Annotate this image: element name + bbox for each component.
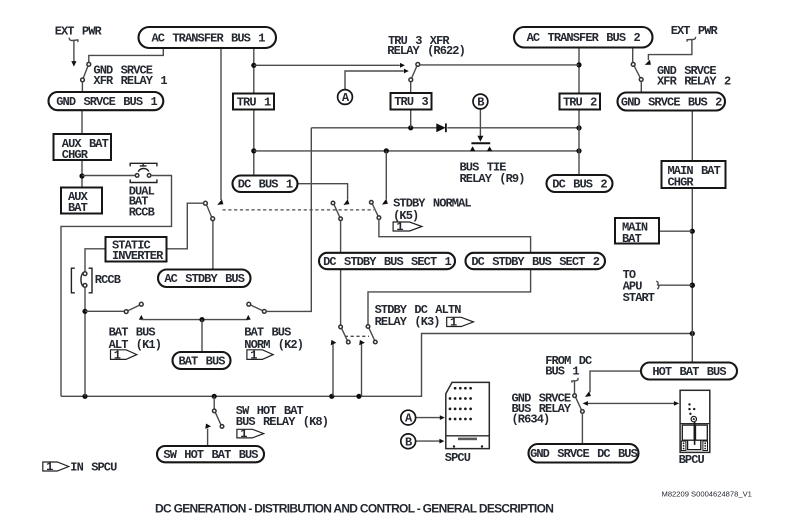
svg-text:RCCB: RCCB: [95, 273, 121, 287]
circuit breaker B1 stem: [477, 109, 483, 142]
box AUX BAT: [61, 188, 102, 214]
svg-text:HOT BAT BUS: HOT BAT BUS: [652, 365, 726, 379]
wire relay to GND SRVCE BUS 2: [640, 81, 642, 92]
node diode line tru2: [576, 125, 581, 130]
node ac xfr 2 tap: [576, 62, 581, 67]
arrow a2 spcu: [440, 415, 445, 420]
arrow ac stdby relay contact: [217, 199, 223, 205]
bus pill DC BUS 2: [547, 175, 613, 192]
node rccb k1 tap: [82, 309, 87, 314]
unit SPCU dots: [449, 387, 472, 421]
node tru3 diode: [408, 125, 413, 130]
relay GND SRVCE BUS RELAY R634: [573, 394, 584, 413]
bus pill DC STDBY BUS SECT 2: [466, 253, 606, 269]
svg-text:GND SRVCE BUS 1: GND SRVCE BUS 1: [56, 95, 157, 109]
node rail rccb: [82, 394, 87, 399]
wire DC BUS 1 to K5A: [298, 184, 348, 200]
unit BPCU stem: [694, 422, 696, 445]
wire AUX BAT CHGR to AUX BAT: [81, 160, 83, 188]
wire from dc bus 1 to R634: [574, 381, 576, 394]
wire aux bat tap to dual bat rccb: [82, 175, 135, 177]
wire AC TRANSFER BUS 2 to TRU 2: [578, 48, 580, 94]
svg-text:BAT: BAT: [622, 232, 642, 246]
svg-text:1: 1: [240, 427, 247, 441]
node rail hot bat bus: [690, 331, 695, 336]
unit BPCU relay boxes: [682, 425, 707, 440]
svg-text:EXT PWR: EXT PWR: [55, 25, 103, 39]
wire diode line: [311, 127, 579, 129]
wire k8 contact to SW HOT BAT BUS: [207, 429, 209, 447]
to apu start symbol: [656, 281, 659, 289]
node tru1 dc bus tap: [251, 148, 256, 153]
wire r634 to bpcu double arrow: [587, 402, 676, 404]
bus pill DC BUS 1: [233, 176, 298, 193]
wire k1 to k2 bat bus line: [141, 319, 248, 321]
relay STDBY DC ALTN K3 left: [339, 325, 350, 344]
ext pwr feed symbol left: [69, 38, 78, 67]
wire relay to TRU 3: [410, 82, 412, 94]
svg-text:CHGR: CHGR: [62, 148, 89, 162]
svg-text:TRU 2: TRU 2: [563, 95, 597, 109]
svg-text:GND SRVCE BUS 2: GND SRVCE BUS 2: [621, 95, 722, 109]
arrow k3 left contact: [331, 340, 337, 345]
svg-text:SW HOT BAT BUS: SW HOT BAT BUS: [163, 448, 258, 462]
svg-text:DC STDBY BUS SECT 1: DC STDBY BUS SECT 1: [323, 255, 451, 269]
wire relay to GND SRVCE BUS 1: [81, 82, 83, 92]
node main bat: [690, 229, 695, 234]
wire GND SRVCE BUS 1 to AUX BAT CHGR: [81, 110, 83, 134]
contactor BUS TIE RELAY R9: [470, 143, 493, 151]
wire circle A to tru3 xfr contact 2: [345, 71, 404, 89]
svg-text:GND SRVCE DC BUS: GND SRVCE DC BUS: [530, 447, 638, 461]
arrow k2 contact: [246, 315, 251, 320]
wire dashed gang ac stdby k5: [223, 209, 375, 211]
svg-text:AC TRANSFER BUS 2: AC TRANSFER BUS 2: [527, 31, 641, 45]
svg-text:SPCU: SPCU: [445, 451, 471, 465]
svg-text:DC STDBY BUS SECT 2: DC STDBY BUS SECT 2: [471, 255, 599, 269]
box TRU 2: [560, 94, 601, 110]
svg-text:START: START: [623, 291, 655, 305]
bus pill GND SRVCE BUS 2: [618, 93, 726, 111]
svg-text:RELAY (R9): RELAY (R9): [460, 172, 525, 186]
wire k3 right contact to rail: [361, 344, 363, 396]
relay AC STDBY (static inverter transfer): [204, 201, 215, 220]
from dc bus 1 symbol: [572, 378, 578, 383]
wire GND SRVCE BUS 2 to MAIN BAT CHGR: [691, 110, 693, 161]
svg-text:BPCU: BPCU: [679, 453, 705, 467]
svg-text:IN SPCU: IN SPCU: [70, 461, 117, 475]
svg-text:AC TRANSFER BUS 1: AC TRANSFER BUS 1: [151, 32, 265, 46]
box AUX BAT CHGR: [54, 134, 112, 160]
arrow to r634: [583, 401, 588, 406]
node bat bus tap: [199, 317, 204, 322]
svg-text:XFR RELAY 1: XFR RELAY 1: [93, 74, 167, 88]
wire SECT1 to K3 left: [340, 269, 342, 325]
svg-text:AC STDBY BUS: AC STDBY BUS: [164, 272, 244, 286]
wire dashed gang k3: [345, 335, 369, 337]
unit SPCU slot bar: [458, 438, 477, 441]
wire tap to tru3 xfr relay: [254, 64, 400, 66]
arrow k1 contact: [139, 315, 144, 320]
svg-text:NORM (K2): NORM (K2): [244, 338, 303, 352]
wire r634 to GND SRVCE DC BUS: [581, 413, 583, 444]
bus pill GND SRVCE DC BUS: [529, 444, 639, 463]
relay STDBY DC ALTN K3 right: [366, 325, 377, 344]
wire static inverter to rccb: [85, 249, 106, 272]
arrow b2 spcu: [439, 439, 444, 444]
svg-text:CHGR: CHGR: [668, 175, 695, 189]
wire HOT BAT BUS to r634 contact: [590, 371, 641, 392]
wire MAIN BAT CHGR to HOT BAT BUS: [691, 188, 693, 363]
wire AC TRANSFER BUS 2 to GND SRVCE XFR RELAY 2: [632, 48, 634, 63]
svg-text:DC BUS 1: DC BUS 1: [238, 178, 293, 192]
bus pill AC TRANSFER BUS 2: [514, 27, 653, 48]
relay TRU 3 XFR (R622): [409, 63, 420, 82]
wire MAIN BAT to vertical: [659, 230, 692, 232]
wire circle A2 to spcu: [416, 417, 440, 419]
bus pill HOT BAT BUS: [641, 363, 737, 380]
box TRU 3: [391, 93, 432, 110]
wire k5b to DC STDBY BUS SECT 2: [379, 220, 531, 254]
svg-text:EXT PWR: EXT PWR: [671, 24, 719, 38]
wire AC TRANSFER BUS 1 to GND SRVCE XFR RELAY 1: [89, 48, 164, 62]
svg-text:BUS RELAY (K8): BUS RELAY (K8): [236, 415, 328, 429]
svg-text:M82209 S0004624878_V1: M82209 S0004624878_V1: [662, 490, 752, 499]
unit BPCU divider: [680, 423, 710, 425]
flag 1 K1: [111, 348, 137, 362]
wire rccb tap to K1: [85, 310, 124, 312]
svg-text:B: B: [477, 96, 484, 110]
arrow k5a contact: [343, 199, 349, 205]
relay STDBY NORMAL K5A: [331, 201, 342, 220]
svg-text:(K5): (K5): [393, 209, 418, 223]
wire TRU1 drop: [253, 48, 255, 176]
wire k2 up to diode line: [266, 128, 311, 312]
svg-text:ALT (K1): ALT (K1): [109, 338, 161, 352]
bus pill SW HOT BAT BUS: [157, 446, 264, 462]
unit BPCU dots: [688, 403, 695, 415]
box TRU 1: [233, 94, 274, 110]
wire relay to AC STDBY BUS: [212, 221, 214, 270]
node ac xfr 1 tap: [251, 63, 256, 68]
flag 1 K2: [247, 348, 273, 362]
bus pill GND SRVCE BUS 1: [49, 92, 164, 110]
wire rccb to bottom rail: [84, 287, 86, 396]
connector circle A top: [338, 90, 353, 105]
connector circle B bottom: [401, 434, 416, 449]
relay GND SRVCE XFR RELAY 1: [81, 62, 91, 81]
wire rail to K8: [213, 396, 215, 409]
node rail k8: [212, 394, 217, 399]
svg-text:TRU 1: TRU 1: [237, 95, 271, 109]
flag 1 K5: [393, 220, 422, 234]
svg-text:BAT: BAT: [68, 201, 88, 215]
arrow tru3 xfr contact 2: [404, 69, 409, 74]
unit SPCU outline: [446, 382, 490, 448]
svg-text:TRU 3: TRU 3: [394, 95, 428, 109]
unit SPCU divider: [446, 435, 490, 437]
wire circle B2 to spcu: [416, 440, 440, 442]
wire tap to BAT BUS: [201, 320, 203, 353]
svg-text:RELAY (R622): RELAY (R622): [387, 44, 465, 58]
box STATIC INVERTER: [106, 237, 167, 262]
wire bottom rail: [61, 334, 692, 397]
wire tap to tru3 xfr relay pivot: [420, 64, 579, 66]
arrow r634 contact: [585, 391, 591, 397]
wire k5a to DC STDBY BUS SECT 1: [340, 221, 342, 253]
arrow tru3 xfr contact 1: [400, 63, 405, 68]
relay SW HOT BAT BUS K8: [213, 409, 224, 428]
svg-text:B: B: [405, 435, 412, 449]
wire AC TRANSFER BUS 1 to AC STDBY relay: [220, 48, 222, 200]
wire TRU 2 to DC BUS 2: [578, 109, 580, 175]
box MAIN BAT CHGR: [662, 161, 726, 188]
arrow k3 right contact: [359, 340, 365, 345]
relay BAT BUS ALT K1: [124, 302, 143, 313]
wire k5b tap down: [385, 151, 387, 199]
relay GND SRVCE XFR RELAY 2: [631, 63, 643, 82]
arrow to bpcu: [674, 401, 679, 406]
wire SECT2 to K3 right: [368, 269, 531, 325]
connector circle B top: [473, 94, 488, 109]
unit BPCU u channel: [688, 440, 701, 449]
arrow k5b contact: [382, 199, 388, 205]
svg-text:BAT BUS: BAT BUS: [178, 354, 225, 368]
wire bus tie line: [254, 150, 579, 152]
svg-text:INVERTER: INVERTER: [112, 249, 164, 263]
flag 1 legend: [43, 460, 69, 474]
svg-text:1: 1: [46, 460, 53, 474]
node aux bat tap: [79, 173, 84, 178]
unit SPCU feet dots: [453, 445, 483, 447]
svg-text:RELAY (K3): RELAY (K3): [375, 315, 440, 329]
svg-text:RCCB: RCCB: [129, 206, 155, 220]
diode CR: [436, 123, 446, 132]
relay STDBY NORMAL K5B: [370, 201, 381, 220]
connector circle A bottom: [401, 410, 416, 425]
relay BAT BUS NORM K2: [247, 302, 266, 313]
bus pill AC STDBY BUS: [158, 270, 251, 288]
wire dual bat rccb loop to left rail: [61, 176, 172, 397]
wire k3 left contact to rail: [332, 344, 334, 396]
unit BPCU outline: [680, 390, 710, 452]
arrow k8 contact: [205, 424, 211, 429]
wire apu start: [659, 284, 693, 286]
svg-text:BUS 1: BUS 1: [545, 365, 579, 379]
bus pill BAT BUS: [173, 352, 231, 369]
svg-text:DC GENERATION - DISTRIBUTION A: DC GENERATION - DISTRIBUTION AND CONTROL…: [155, 502, 553, 516]
node rail k3 left: [329, 394, 334, 399]
unit BPCU feet: [681, 441, 707, 450]
flag 1 K3: [447, 316, 474, 330]
svg-text:DC BUS 2: DC BUS 2: [552, 177, 607, 191]
svg-text:(R634): (R634): [512, 412, 550, 426]
box MAIN BAT: [615, 218, 659, 244]
svg-text:XFR RELAY 2: XFR RELAY 2: [657, 75, 731, 89]
ext pwr feed symbol right: [645, 37, 696, 65]
bus pill DC STDBY BUS SECT 1: [319, 253, 455, 269]
wire ac stdby relay pivot to static inverter: [167, 203, 204, 249]
unit BPCU ring connector: [691, 416, 696, 421]
breaker DUAL BAT RCCB: [130, 163, 157, 182]
bus pill AC TRANSFER BUS 1: [139, 27, 277, 48]
wire TRU 3 to diode line: [410, 109, 412, 128]
node rail k3 right: [356, 394, 361, 399]
node k5b tap: [384, 148, 389, 153]
svg-text:1: 1: [450, 316, 457, 330]
flag 1 K8: [237, 427, 264, 441]
breaker RCCB: [71, 268, 92, 293]
node apu start: [690, 283, 695, 288]
node bus tie tru2: [576, 148, 581, 153]
